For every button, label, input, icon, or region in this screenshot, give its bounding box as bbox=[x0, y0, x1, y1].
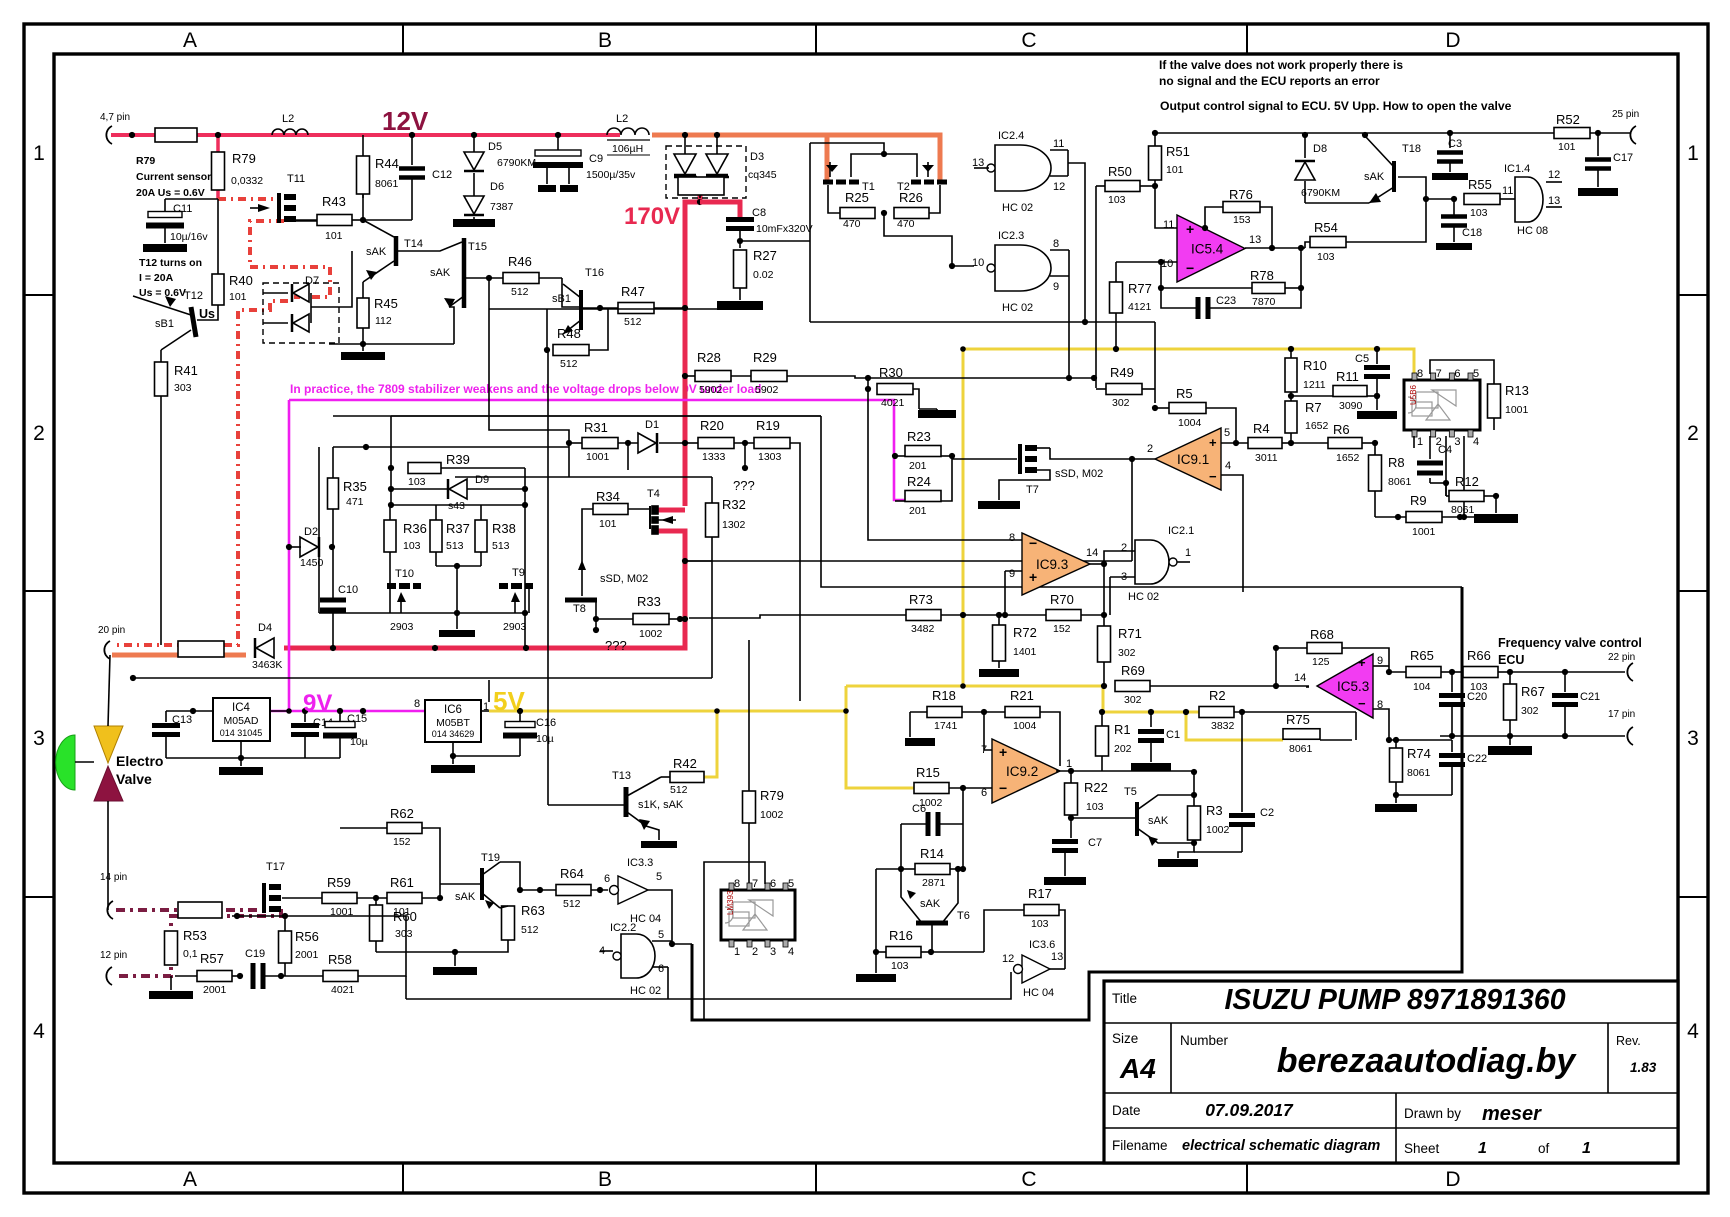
svg-text:1: 1 bbox=[33, 142, 45, 165]
wire valve stem bbox=[75, 761, 94, 763]
svg-text:14 pin: 14 pin bbox=[100, 872, 127, 883]
wire yellow R75 branch bbox=[1186, 712, 1283, 740]
svg-text:101: 101 bbox=[599, 518, 617, 530]
junction dot bbox=[360, 708, 366, 714]
svg-text:4: 4 bbox=[1687, 1020, 1699, 1043]
svg-text:R17: R17 bbox=[1028, 886, 1052, 901]
svg-text:Current sensor: Current sensor bbox=[136, 171, 211, 183]
ground D6 bbox=[453, 219, 495, 227]
svg-text:4: 4 bbox=[1225, 460, 1231, 472]
svg-text:IC6: IC6 bbox=[444, 704, 462, 716]
wire T16 base bbox=[539, 277, 562, 279]
junction dot bbox=[409, 132, 415, 138]
wire T19 base bbox=[439, 868, 441, 898]
svg-text:2: 2 bbox=[1687, 422, 1699, 445]
svg-text:17 pin: 17 pin bbox=[1608, 709, 1635, 720]
svg-text:D4: D4 bbox=[258, 622, 272, 634]
svg-text:11: 11 bbox=[1163, 219, 1174, 231]
wire T18 to R55 bbox=[1426, 198, 1454, 200]
svg-text:12 pin: 12 pin bbox=[100, 950, 127, 961]
svg-text:103: 103 bbox=[891, 960, 909, 972]
svg-text:Output control signal to ECU.: Output control signal to ECU. 5V Upp. Ho… bbox=[1160, 99, 1512, 113]
frame right band divider 1/2 bbox=[1678, 294, 1708, 296]
resistor R64 bbox=[556, 885, 591, 896]
resistor R59 bbox=[322, 893, 357, 904]
ic IC4 M05AD bbox=[213, 698, 270, 741]
svg-text:R23: R23 bbox=[907, 429, 931, 444]
wire R68 right bbox=[1342, 648, 1389, 666]
wire 170V C8 branch bbox=[700, 202, 740, 218]
svg-text:T5: T5 bbox=[1124, 786, 1137, 798]
svg-text:R59: R59 bbox=[327, 875, 351, 890]
ground R45 bbox=[341, 352, 385, 360]
svg-text:103: 103 bbox=[1317, 251, 1335, 263]
svg-text:12: 12 bbox=[1053, 181, 1065, 193]
junction dot bbox=[960, 612, 966, 618]
capacitor C23 bbox=[1198, 297, 1208, 319]
svg-text:512: 512 bbox=[560, 358, 578, 370]
resistor R35 bbox=[328, 478, 339, 509]
fuse F3 bbox=[178, 902, 222, 918]
svg-text:R19: R19 bbox=[756, 418, 780, 433]
svg-text:4021: 4021 bbox=[881, 397, 905, 409]
ic IC6 M05BT bbox=[425, 700, 481, 742]
wire yellow main bus bbox=[846, 686, 1199, 712]
svg-text:R79: R79 bbox=[760, 788, 784, 803]
op-amp IC9.2 bbox=[992, 739, 1060, 803]
svg-text:R41: R41 bbox=[174, 363, 198, 378]
svg-text:D3: D3 bbox=[750, 151, 764, 163]
svg-text:6790KM: 6790KM bbox=[497, 157, 536, 169]
svg-text:12: 12 bbox=[1002, 953, 1014, 965]
transistor T14 bbox=[394, 236, 399, 266]
wire chip pin6 net bbox=[704, 862, 765, 1020]
svg-text:471: 471 bbox=[346, 496, 364, 508]
svg-text:2: 2 bbox=[33, 422, 45, 445]
transistor T12 bbox=[191, 307, 196, 337]
resistor R49 bbox=[1106, 384, 1142, 395]
wire T7 drain bbox=[1037, 447, 1050, 449]
wire 309 to R31 bbox=[489, 309, 569, 443]
svg-text:8: 8 bbox=[1417, 368, 1423, 380]
svg-text:7: 7 bbox=[981, 744, 987, 756]
transistor T19 bbox=[480, 868, 484, 900]
svg-text:C5: C5 bbox=[1355, 353, 1369, 365]
svg-text:R38: R38 bbox=[492, 521, 516, 536]
svg-text:Us: Us bbox=[199, 307, 215, 321]
svg-text:−: − bbox=[1186, 260, 1194, 276]
wire T13 base bbox=[548, 804, 624, 806]
resistor R25 bbox=[840, 208, 875, 219]
svg-text:302: 302 bbox=[1521, 705, 1539, 717]
resistor R52 bbox=[1554, 128, 1590, 139]
svg-text:5902: 5902 bbox=[755, 384, 779, 396]
wire maroon dash T17 path bbox=[114, 909, 281, 976]
capacitor C9 bbox=[557, 135, 559, 150]
wire to 22pin bbox=[1510, 671, 1625, 673]
wire col 525 bbox=[524, 468, 526, 648]
svg-text:12: 12 bbox=[1548, 169, 1560, 181]
wire T bus 613 bbox=[319, 612, 525, 614]
wire mid horizontals bbox=[333, 415, 821, 417]
op-amp IC9.1 bbox=[1155, 428, 1221, 490]
resistor R51 bbox=[1149, 146, 1162, 180]
svg-text:ECU: ECU bbox=[1498, 653, 1524, 667]
gate IC2.4 bbox=[995, 145, 1051, 191]
svg-text:6790KM: 6790KM bbox=[1301, 187, 1340, 199]
svg-text:A: A bbox=[183, 1168, 197, 1191]
resistor R13 bbox=[1488, 384, 1501, 418]
transistor T6 bbox=[916, 921, 948, 926]
resistor R61 bbox=[387, 893, 422, 904]
svg-text:R37: R37 bbox=[446, 521, 470, 536]
svg-text:R66: R66 bbox=[1467, 648, 1491, 663]
svg-text:B: B bbox=[598, 1168, 612, 1191]
svg-text:If the valve does not work pro: If the valve does not work properly ther… bbox=[1159, 58, 1403, 72]
svg-text:Drawn by: Drawn by bbox=[1404, 1106, 1461, 1121]
svg-text:201: 201 bbox=[909, 460, 927, 472]
diode D5 bbox=[473, 135, 475, 152]
svg-text:LM393: LM393 bbox=[726, 890, 735, 915]
svg-text:Valve: Valve bbox=[116, 771, 152, 787]
svg-text:C6: C6 bbox=[912, 803, 926, 815]
junction dot bbox=[360, 217, 366, 223]
wire IC2.2 pin6 bbox=[667, 967, 669, 999]
wire C2-R3 join bbox=[1191, 769, 1197, 775]
wire R31 left bbox=[568, 443, 570, 477]
resistor R22 bbox=[1065, 783, 1078, 815]
svg-text:1001: 1001 bbox=[1505, 404, 1529, 416]
diode D7b bbox=[293, 314, 309, 332]
svg-text:T18: T18 bbox=[1402, 143, 1421, 155]
svg-text:8061: 8061 bbox=[1451, 504, 1475, 516]
resistor R17 bbox=[1024, 905, 1059, 916]
svg-text:IC9.1: IC9.1 bbox=[1177, 452, 1209, 467]
capacitor C5 bbox=[1376, 349, 1378, 364]
wire row 447 bbox=[333, 446, 569, 448]
svg-text:sSD, M02: sSD, M02 bbox=[1055, 468, 1103, 480]
svg-text:sAK: sAK bbox=[920, 898, 941, 910]
svg-text:5: 5 bbox=[658, 929, 664, 941]
svg-text:R32: R32 bbox=[722, 497, 746, 512]
wire D3 bbox=[684, 135, 686, 154]
wire T13 emitter gnd bbox=[641, 841, 677, 848]
svg-text:IC3.3: IC3.3 bbox=[627, 857, 653, 869]
svg-text:R58: R58 bbox=[328, 952, 352, 967]
svg-text:R31: R31 bbox=[584, 420, 608, 435]
diode D3b bbox=[706, 154, 728, 174]
junction dot bbox=[360, 341, 366, 347]
svg-text:R46: R46 bbox=[508, 254, 532, 269]
svg-text:10µ: 10µ bbox=[350, 736, 368, 748]
ground mid block bbox=[439, 630, 475, 637]
ic chip U2 dip8 bbox=[1404, 380, 1480, 430]
svg-text:C: C bbox=[1021, 1168, 1036, 1191]
wire 170V T4 bottom bbox=[284, 531, 685, 648]
inverter IC3.6 bbox=[1022, 955, 1050, 983]
svg-text:6: 6 bbox=[604, 873, 610, 885]
svg-text:4021: 4021 bbox=[331, 984, 355, 996]
svg-text:3: 3 bbox=[770, 946, 776, 958]
wire 12V rail red bbox=[111, 133, 620, 137]
wire 12V R79 bottom red bbox=[216, 190, 220, 199]
gate IC1.4 bbox=[1515, 177, 1543, 222]
svg-text:7: 7 bbox=[752, 878, 758, 890]
frame right band divider 2/3 bbox=[1678, 590, 1708, 592]
svg-text:101: 101 bbox=[325, 230, 343, 242]
svg-text:104: 104 bbox=[1413, 681, 1431, 693]
svg-text:R27: R27 bbox=[753, 248, 777, 263]
wire IC2.2 net bbox=[672, 941, 692, 944]
svg-text:1652: 1652 bbox=[1305, 420, 1329, 432]
wire R43-R44 bbox=[352, 219, 363, 221]
svg-text:1741: 1741 bbox=[934, 720, 958, 732]
svg-text:+: + bbox=[999, 744, 1007, 760]
frame left band divider 2/3 bbox=[24, 590, 54, 592]
svg-text:C15: C15 bbox=[347, 713, 367, 725]
svg-text:R48: R48 bbox=[557, 326, 581, 341]
wire 810 vert bbox=[809, 266, 811, 322]
wire R47 right bbox=[654, 307, 685, 309]
wire chip bottom nets bbox=[1413, 436, 1415, 448]
svg-text:R3: R3 bbox=[1206, 803, 1223, 818]
svg-text:C13: C13 bbox=[172, 714, 192, 726]
svg-text:R42: R42 bbox=[673, 756, 697, 771]
transistor T2 bbox=[911, 162, 947, 182]
svg-text:+: + bbox=[1209, 435, 1217, 450]
svg-text:2903: 2903 bbox=[390, 621, 414, 633]
wire thick net right bbox=[692, 587, 1462, 1020]
connector 25 pin bbox=[1630, 126, 1636, 144]
svg-text:T12: T12 bbox=[184, 290, 203, 302]
svg-text:1401: 1401 bbox=[1013, 646, 1037, 658]
svg-text:5: 5 bbox=[1224, 427, 1230, 439]
op-amp IC5.3 bbox=[1317, 654, 1373, 718]
svg-text:9: 9 bbox=[1053, 281, 1059, 293]
connector 14 pin bbox=[107, 901, 113, 919]
svg-text:014 34629: 014 34629 bbox=[432, 729, 475, 739]
svg-text:R10: R10 bbox=[1303, 358, 1327, 373]
wire T7 source bbox=[999, 470, 1050, 500]
svg-text:R64: R64 bbox=[560, 866, 584, 881]
transistor T11 bbox=[277, 193, 281, 223]
title block divider drawnby/sheet bbox=[1396, 1127, 1678, 1129]
svg-text:1001: 1001 bbox=[1412, 526, 1436, 538]
capacitor C20 bbox=[1451, 672, 1453, 692]
svg-text:Filename: Filename bbox=[1112, 1138, 1168, 1153]
svg-text:I = 20A: I = 20A bbox=[139, 272, 174, 284]
svg-text:R52: R52 bbox=[1556, 112, 1580, 127]
resistor R40 bbox=[212, 274, 224, 305]
resistor R68 bbox=[1307, 643, 1342, 654]
resistor R53 bbox=[165, 931, 178, 965]
svg-text:L2: L2 bbox=[282, 113, 294, 125]
wire D7 bars bbox=[263, 292, 288, 294]
wire R77 bottom bbox=[1115, 313, 1117, 349]
ground 17 bus bbox=[1509, 736, 1511, 745]
svg-text:T15: T15 bbox=[468, 241, 487, 253]
svg-text:HC 08: HC 08 bbox=[1517, 225, 1548, 237]
svg-text:C23: C23 bbox=[1216, 295, 1236, 307]
wire mid 561 bbox=[685, 560, 1132, 562]
capacitor C4 bbox=[1429, 436, 1431, 459]
wire orange top rail bbox=[652, 135, 940, 184]
wire IC9.3 inputs bbox=[868, 389, 1022, 540]
resistor R26 bbox=[894, 208, 929, 219]
fuse F2 bbox=[178, 641, 224, 657]
svg-text:12V: 12V bbox=[382, 106, 429, 136]
fuse F1 bbox=[155, 128, 197, 142]
svg-text:R78: R78 bbox=[1250, 268, 1274, 283]
svg-text:T6: T6 bbox=[957, 910, 970, 922]
svg-text:303: 303 bbox=[174, 382, 192, 394]
svg-text:R75: R75 bbox=[1286, 712, 1310, 727]
svg-text:D2: D2 bbox=[304, 526, 318, 538]
wire 170V red thick bbox=[685, 195, 700, 506]
svg-text:152: 152 bbox=[1053, 623, 1071, 635]
svg-text:103: 103 bbox=[1108, 194, 1126, 206]
transistor T7 mosfet bbox=[1018, 444, 1022, 474]
capacitor C15 bbox=[339, 711, 341, 722]
resistor R12 bbox=[1449, 491, 1484, 502]
svg-text:2: 2 bbox=[1147, 443, 1153, 455]
svg-text:1333: 1333 bbox=[702, 451, 726, 463]
capacitor C10 bbox=[320, 600, 346, 610]
junction dot bbox=[742, 440, 748, 446]
svg-text:14: 14 bbox=[1086, 547, 1098, 559]
svg-text:302: 302 bbox=[1118, 647, 1136, 659]
resistor R10 bbox=[1285, 358, 1297, 392]
svg-text:D1: D1 bbox=[645, 419, 659, 431]
svg-text:152: 152 bbox=[393, 836, 411, 848]
resistor R30 bbox=[877, 384, 913, 395]
frame right band divider 3/4 bbox=[1678, 896, 1708, 898]
svg-text:R20: R20 bbox=[700, 418, 724, 433]
svg-text:IC4: IC4 bbox=[232, 702, 251, 714]
wire R45 bottom bus bbox=[329, 343, 454, 345]
svg-text:3: 3 bbox=[1454, 436, 1460, 448]
resistor R39 bbox=[408, 463, 441, 474]
svg-text:IC1.4: IC1.4 bbox=[1504, 163, 1530, 175]
svg-text:A: A bbox=[183, 29, 197, 52]
svg-text:R9: R9 bbox=[1410, 493, 1427, 508]
svg-text:13: 13 bbox=[1051, 951, 1063, 963]
resistor R14 bbox=[915, 864, 950, 875]
wire 12V R79 drop red bbox=[216, 133, 220, 152]
svg-text:1002: 1002 bbox=[760, 809, 784, 821]
svg-text:3090: 3090 bbox=[1339, 400, 1363, 412]
svg-text:T12 turns on: T12 turns on bbox=[139, 257, 202, 269]
svg-text:R1: R1 bbox=[1114, 722, 1131, 737]
svg-text:201: 201 bbox=[909, 505, 927, 517]
svg-text:D9: D9 bbox=[475, 474, 489, 486]
wire IC4 out bbox=[270, 710, 289, 712]
svg-text:T19: T19 bbox=[481, 852, 500, 864]
resistor R71 bbox=[1098, 626, 1111, 662]
capacitor C11 bbox=[165, 198, 218, 200]
svg-text:−: − bbox=[1209, 469, 1217, 484]
wire yellow 5V from IC6 bbox=[489, 686, 846, 711]
svg-text:470: 470 bbox=[897, 218, 915, 230]
svg-text:−: − bbox=[999, 780, 1007, 796]
frame left band divider 1/2 bbox=[24, 294, 54, 296]
svg-text:1652: 1652 bbox=[1336, 452, 1360, 464]
svg-text:R79: R79 bbox=[232, 151, 256, 166]
diode D4 bbox=[256, 638, 274, 658]
junction dot bbox=[881, 210, 887, 216]
svg-text:1: 1 bbox=[1417, 436, 1423, 448]
svg-text:101: 101 bbox=[1558, 141, 1576, 153]
wire R15 down bbox=[962, 788, 964, 869]
svg-text:8061: 8061 bbox=[375, 178, 399, 190]
svg-text:1004: 1004 bbox=[1013, 720, 1037, 732]
wire R22-T5 bbox=[1071, 817, 1135, 819]
svg-text:IC9.3: IC9.3 bbox=[1036, 557, 1068, 572]
junction dot bbox=[129, 132, 135, 138]
svg-text:5: 5 bbox=[788, 878, 794, 890]
svg-text:In practice, the 7809 stabiliz: In practice, the 7809 stabilizer weakens… bbox=[290, 382, 761, 396]
svg-text:10µ/16v: 10µ/16v bbox=[170, 231, 208, 243]
wire R63 bottom bbox=[376, 940, 508, 952]
svg-text:C2: C2 bbox=[1260, 807, 1274, 819]
svg-text:4: 4 bbox=[788, 946, 794, 958]
svg-text:R30: R30 bbox=[879, 365, 903, 380]
svg-text:R61: R61 bbox=[390, 875, 414, 890]
transistor T18 bbox=[1392, 161, 1396, 192]
diode D7 box bbox=[263, 283, 339, 343]
svg-text:−: − bbox=[1029, 535, 1037, 551]
svg-text:C7: C7 bbox=[1088, 837, 1102, 849]
wire T18 base bbox=[1398, 177, 1426, 199]
svg-text:07.09.2017: 07.09.2017 bbox=[1205, 1100, 1294, 1120]
svg-text:512: 512 bbox=[670, 784, 688, 796]
svg-text:1: 1 bbox=[1478, 1140, 1487, 1157]
wire IC5.3 pin8 bbox=[1373, 709, 1389, 740]
svg-text:R36: R36 bbox=[403, 521, 427, 536]
wire IC3.3 out bbox=[648, 890, 672, 941]
gate IC2.1 bbox=[1135, 540, 1169, 584]
title block divider filename col bbox=[1395, 1093, 1397, 1163]
junction dot bbox=[1595, 130, 1601, 136]
resistor R16 bbox=[886, 947, 921, 958]
resistor R8 bbox=[1369, 455, 1382, 491]
resistor R76 bbox=[1223, 202, 1260, 213]
svg-text:2: 2 bbox=[752, 946, 758, 958]
wire orange T1 drop bbox=[825, 133, 830, 184]
resistor R27 bbox=[734, 250, 747, 288]
svg-text:1.83: 1.83 bbox=[1630, 1060, 1657, 1075]
diode D7a bbox=[293, 284, 309, 302]
resistor R45 bbox=[357, 298, 369, 328]
resistor R38 bbox=[475, 520, 487, 552]
electro valve maroon triangle bbox=[94, 766, 123, 801]
svg-text:R63: R63 bbox=[521, 903, 545, 918]
svg-text:electrical schematic diagram: electrical schematic diagram bbox=[1182, 1138, 1380, 1154]
resistor R66 bbox=[1463, 667, 1498, 678]
op-amp IC5.4 bbox=[1177, 215, 1245, 282]
resistor R43 bbox=[317, 215, 352, 226]
svg-text:13: 13 bbox=[1249, 234, 1261, 246]
gate IC2.3 bbox=[995, 245, 1051, 291]
wire D8 emitter net bbox=[1305, 202, 1369, 204]
svg-text:R5: R5 bbox=[1176, 386, 1193, 401]
svg-text:R2: R2 bbox=[1209, 688, 1226, 703]
svg-text:sAK: sAK bbox=[366, 246, 387, 258]
svg-text:???: ??? bbox=[733, 478, 755, 493]
capacitor C12 bbox=[411, 135, 413, 165]
capacitor C21 bbox=[1564, 672, 1566, 692]
svg-text:153: 153 bbox=[1233, 214, 1251, 226]
